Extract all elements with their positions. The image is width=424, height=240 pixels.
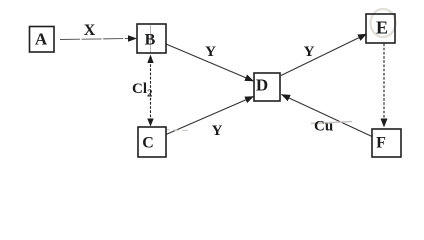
smudge vertical line through B xyxy=(150,25,152,53)
wire E to F xyxy=(381,44,388,128)
svg-text:Cu: Cu xyxy=(314,119,333,135)
box C xyxy=(138,127,166,157)
wire F to D (label Cu) xyxy=(282,95,373,137)
box B xyxy=(137,24,166,53)
svg-text:F: F xyxy=(376,135,386,152)
wire B to D (label Y) xyxy=(166,44,254,81)
svg-text:Y: Y xyxy=(205,44,216,60)
svg-text:Y: Y xyxy=(212,123,223,139)
box A xyxy=(30,27,55,53)
svg-text:E: E xyxy=(376,18,388,38)
wire D to E (label Y) xyxy=(281,34,367,76)
wire A to B (dashed, label X) xyxy=(60,35,137,41)
svg-text:X: X xyxy=(84,22,96,39)
svg-text:D: D xyxy=(256,76,268,95)
wire B to C double arrow (label Cl2) xyxy=(147,55,153,127)
smudge circle around E xyxy=(371,9,396,37)
box D xyxy=(254,73,280,101)
smudge dashes right of C xyxy=(155,130,188,131)
box F xyxy=(372,129,401,157)
wire C to D (label Y) xyxy=(166,97,254,135)
box E xyxy=(366,14,395,43)
svg-text:C: C xyxy=(142,135,154,152)
svg-text:Y: Y xyxy=(304,44,315,60)
svg-text:B: B xyxy=(145,32,156,49)
smudge line through Cu xyxy=(311,122,352,124)
svg-text:A: A xyxy=(35,30,48,49)
